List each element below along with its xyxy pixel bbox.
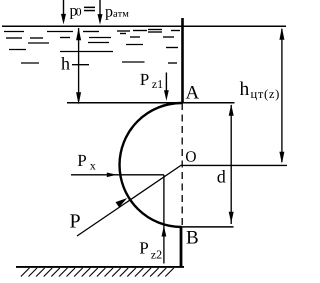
label Pz2 <box>140 242 148 253</box>
wall dashed segment A to B <box>181 103 183 227</box>
label h <box>61 57 70 69</box>
label P <box>70 214 80 227</box>
A-level horizontal line <box>67 102 235 104</box>
Px force arrow <box>71 174 164 176</box>
B-level horizontal line <box>180 226 234 228</box>
wall upper solid segment <box>181 18 184 103</box>
water hatch dashes <box>4 30 180 64</box>
label A (node A) <box>186 86 199 99</box>
label h_ct(z) <box>240 81 249 95</box>
O-level horizontal line <box>182 164 288 166</box>
label Pz1 <box>140 74 148 85</box>
wall lower solid segment <box>180 227 183 268</box>
label Px <box>78 155 86 166</box>
equals sign <box>84 7 95 9</box>
hemisphere arc <box>120 103 182 227</box>
d dimension arrow <box>230 105 232 224</box>
h label tick <box>72 64 89 66</box>
label p_atm <box>105 9 112 20</box>
water surface line <box>2 25 286 27</box>
top arrow p0 <box>63 0 65 16</box>
ground line <box>16 266 184 268</box>
label d <box>217 170 225 183</box>
Pz1 force arrow <box>165 73 167 93</box>
h dimension arrow <box>78 28 80 101</box>
label O (center O) <box>186 151 196 161</box>
label B (node B) <box>187 231 198 243</box>
top arrow p_atm <box>99 0 101 16</box>
P resultant force line to O <box>77 165 182 236</box>
h_ct(z) dimension arrow <box>281 29 283 162</box>
label p0 <box>70 8 77 19</box>
ground hatching <box>21 268 174 277</box>
Pz2 force action line <box>163 175 165 264</box>
